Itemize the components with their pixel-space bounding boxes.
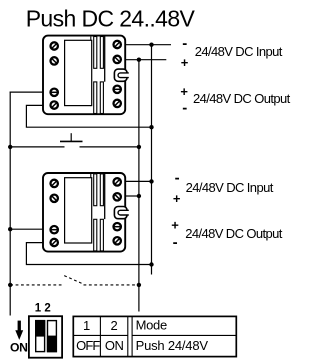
junction dot plus bus top [137,58,141,62]
svg-text:Push 24/48V: Push 24/48V [136,338,209,353]
junction dot link line left [8,145,12,149]
wire: module1 left screw3 to left bus (W3) [10,91,44,93]
wire: left bus vertical [9,92,11,316]
mode table row divider [73,334,128,336]
wire: inter-module link right segment (L2) [80,146,139,148]
svg-text:-: - [173,234,178,251]
wire: inter-module link left segment (L2) [10,146,64,148]
ON direction arrow [18,321,21,331]
svg-text:OFF: OFF [76,338,100,353]
DIP switch slot 1 (OFF, handle up) [36,321,45,352]
device module U1 [43,36,129,115]
svg-text:24/48V DC Input: 24/48V DC Input [186,180,274,195]
svg-text:+: + [180,84,188,99]
svg-text:2: 2 [110,318,117,333]
svg-text:ON: ON [105,338,124,353]
mode table frame [73,316,236,356]
mode table double divider [127,316,129,356]
wire: module1 DC input minus (W1) [125,44,171,46]
switch S1 actuator tick [70,133,72,141]
svg-text:24/48V DC Input: 24/48V DC Input [195,44,283,59]
svg-text:ON: ON [10,341,28,355]
svg-text:-: - [175,170,180,187]
junction dot module2 input minus [149,179,153,183]
svg-text:-: - [182,35,187,52]
wire: module2 DC input minus (W9) [125,180,152,182]
wire: module2 DC input plus (W10) [125,195,139,197]
svg-text:24/48V DC Output: 24/48V DC Output [193,91,291,106]
mechanical link dashed line right segment [84,284,139,286]
DIP switch body [29,316,62,358]
mechanical link dashed line left segment [10,284,61,286]
mechanical link switch lever (dashed) [64,276,81,284]
device module U2 [43,173,129,252]
svg-text:1: 1 [83,318,90,333]
switch S1 contact bar [60,140,83,142]
junction dot link line right [137,145,141,149]
wire: module2 left screw4 wrap (W7) [26,243,151,265]
junction dot minus bus top [149,43,153,47]
wire: module2 left screw3 to left bus (W6) [10,228,43,230]
junction dot module1 wrap to minus bus [149,125,153,129]
svg-text:24/48V DC Output: 24/48V DC Output [185,226,283,241]
wire: plus bus vertical [138,60,140,312]
svg-text:+: + [181,55,189,70]
svg-text:Mode: Mode [136,317,167,332]
svg-text:+: + [173,191,181,206]
wire: minus bus vertical [151,45,153,275]
DIP switch slot 2 (ON, handle down) [48,321,57,352]
junction dot dashed left [8,283,12,287]
wire: module1 left screw4 (W4) [26,105,151,127]
junction dot dashed right [137,283,141,287]
junction dot module2 screw3 [8,227,12,231]
junction dot module2 wrap to minus bus [149,262,153,266]
svg-text:2: 2 [44,302,50,314]
mode table column divider 1|2 [99,316,101,356]
svg-text:+: + [171,218,179,233]
junction dot module2 input plus [137,194,141,198]
svg-text:1: 1 [35,302,42,314]
svg-text:-: - [182,99,187,116]
svg-text:Push DC 24..48V: Push DC 24..48V [26,6,196,32]
wire: module1 DC input plus (W2) [125,59,166,61]
